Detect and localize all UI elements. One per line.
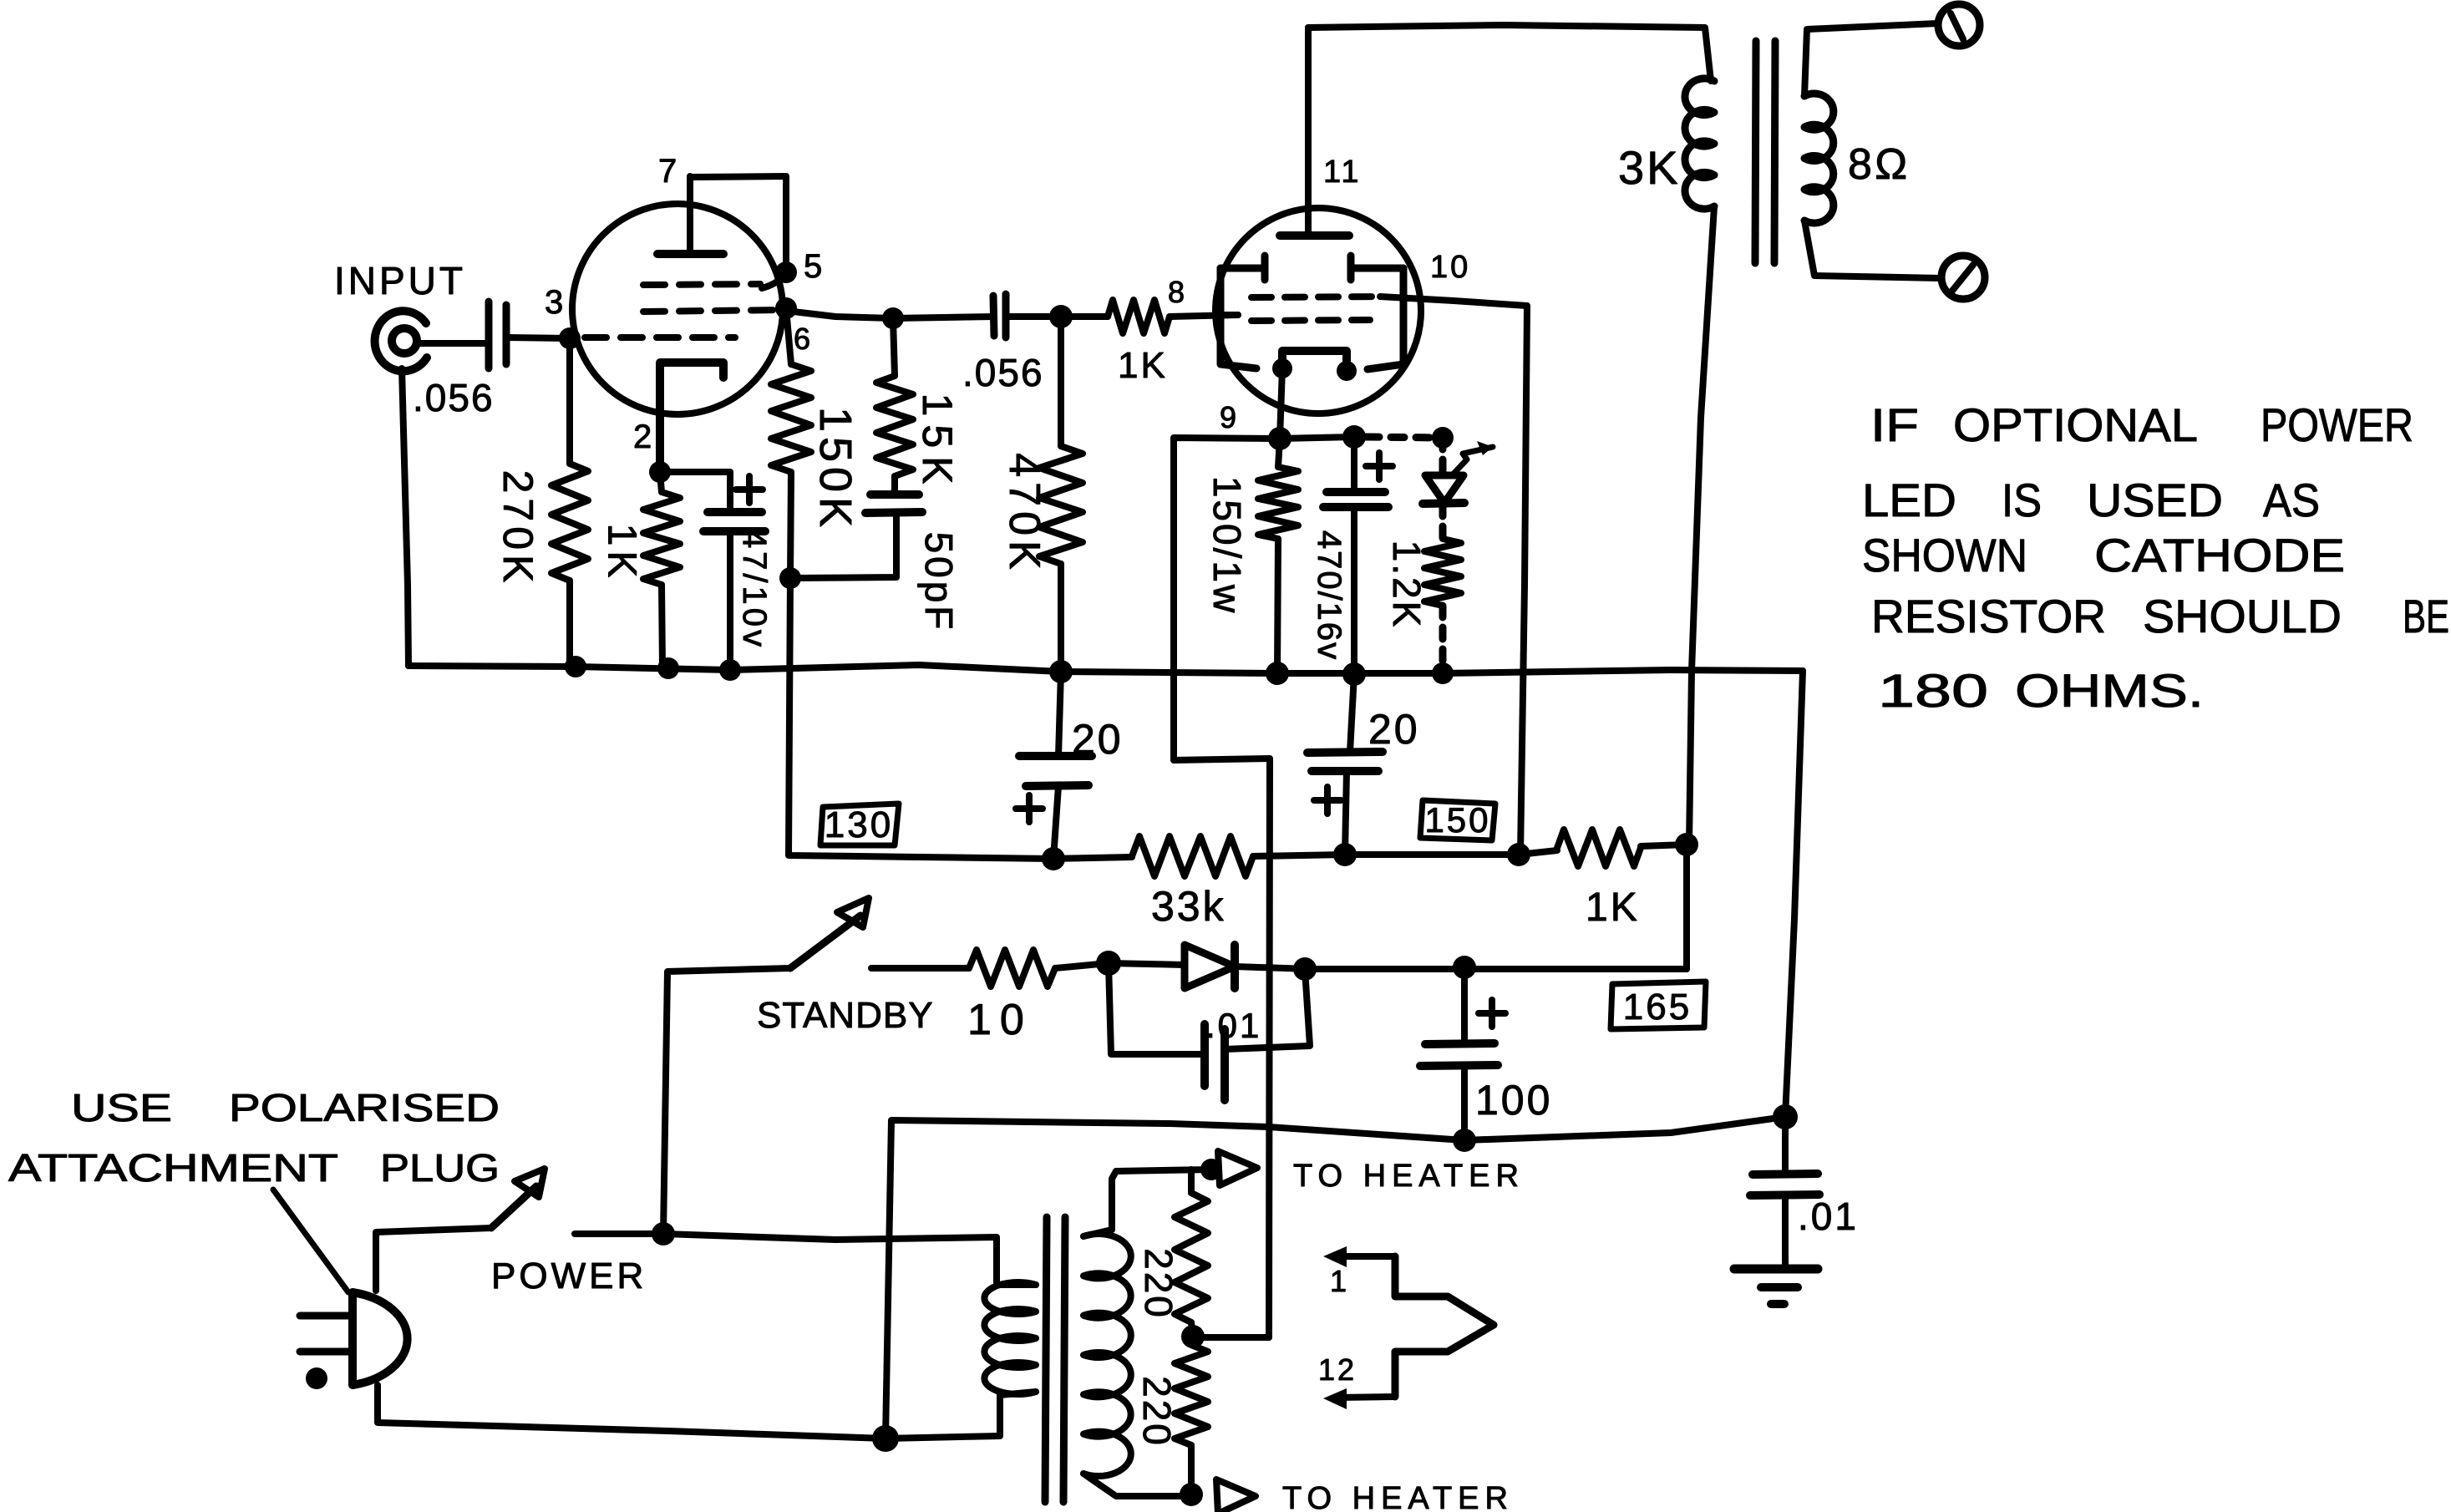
wire 130 node bbox=[789, 578, 1053, 859]
V2 cathode dots bbox=[1272, 358, 1357, 381]
svg-text:10: 10 bbox=[967, 996, 1033, 1044]
wire input jack to C1 bbox=[418, 340, 489, 347]
wire rail right down bbox=[1785, 671, 1803, 1117]
svg-text:SHOULD: SHOULD bbox=[2143, 590, 2342, 642]
capacitor C9 100 plus bbox=[1479, 1000, 1505, 1027]
svg-text:RESISTOR: RESISTOR bbox=[1871, 590, 2106, 642]
svg-text:POLARISED: POLARISED bbox=[229, 1086, 500, 1129]
capacitor C3 50pF bbox=[865, 495, 961, 632]
input jack J1 bbox=[375, 311, 427, 371]
resistor R6 1K grid stopper bbox=[1061, 300, 1238, 386]
node 470K top bbox=[1049, 305, 1073, 328]
capacitor C10 .01 bbox=[1750, 1117, 1819, 1269]
svg-text:USED: USED bbox=[2087, 474, 2223, 526]
node 20b bottom bbox=[1333, 843, 1357, 866]
standby switch arrowhead bbox=[837, 898, 869, 927]
node heater center tap bbox=[1181, 1325, 1205, 1348]
wire B+ top bbox=[1308, 25, 1711, 81]
resistor R1 270K bbox=[495, 338, 588, 667]
node pin5 bbox=[775, 248, 825, 285]
rail dot 470uF bbox=[1342, 662, 1366, 686]
capacitor C6 20 bbox=[1019, 672, 1092, 859]
standby switch lever bbox=[790, 916, 860, 968]
wire neutral to primary bottom bbox=[886, 1392, 1036, 1438]
svg-text:10: 10 bbox=[1430, 250, 1470, 285]
wire heater neutral line bbox=[886, 1117, 1785, 1438]
capacitor C7 20 plus bbox=[1314, 787, 1341, 814]
resistor R9 33K bbox=[1053, 836, 1345, 930]
pin label 3 bbox=[545, 284, 566, 321]
svg-text:SHOWN: SHOWN bbox=[1862, 529, 2027, 581]
capacitor C8 .01 bbox=[1205, 1006, 1261, 1100]
node pin6 bbox=[775, 297, 813, 356]
capacitor C1 .056 bbox=[413, 302, 506, 419]
label 20 first bbox=[1072, 716, 1124, 763]
pin12 arrow bbox=[1323, 1388, 1395, 1409]
node LED top bbox=[1432, 427, 1454, 449]
svg-text:3: 3 bbox=[545, 284, 566, 321]
label 165 box bbox=[1611, 982, 1706, 1029]
svg-text:33k: 33k bbox=[1151, 883, 1226, 930]
svg-text:STANDBY: STANDBY bbox=[757, 995, 934, 1036]
svg-text:11: 11 bbox=[1323, 155, 1361, 190]
wire secondary top bbox=[1804, 23, 1938, 96]
node power junction bbox=[652, 1222, 675, 1246]
wire dashed LED branch bbox=[1366, 437, 1443, 438]
resistor R10 1K bbox=[1519, 830, 1687, 930]
wire C4 to node bbox=[1006, 313, 1061, 320]
wire pin9 node left leg bbox=[1174, 438, 1280, 1337]
wire standby left bbox=[663, 968, 790, 1234]
tube V2 envelope bbox=[1215, 208, 1421, 414]
V1 plate pin7 lead bbox=[687, 176, 693, 254]
node pin2 bbox=[649, 461, 671, 483]
svg-text:270K: 270K bbox=[495, 470, 541, 588]
svg-text:180: 180 bbox=[1878, 664, 1988, 717]
svg-text:220: 220 bbox=[1135, 1376, 1179, 1448]
label use polarised bbox=[71, 1086, 500, 1129]
wire dashed R8 to rail bbox=[1439, 606, 1447, 673]
resistor R7 150/1w bbox=[1205, 439, 1298, 673]
capacitor C2 47/10v plus bbox=[736, 476, 763, 503]
label 130 box bbox=[820, 804, 899, 845]
wire power to transformer primary bbox=[663, 1234, 1036, 1285]
svg-text:ATTACHMENT: ATTACHMENT bbox=[8, 1146, 338, 1190]
svg-text:OHMS.: OHMS. bbox=[2015, 664, 2204, 717]
power transformer T2 core bbox=[1045, 1217, 1065, 1502]
pin label 7 bbox=[658, 153, 679, 190]
svg-text:.056: .056 bbox=[413, 376, 495, 419]
note line5 bbox=[1878, 664, 2204, 717]
svg-text:50pF: 50pF bbox=[917, 532, 961, 633]
rail dot 1K bbox=[657, 657, 679, 679]
resistor R5 470K bbox=[1000, 317, 1083, 672]
label pin 12 bbox=[1318, 1352, 1357, 1387]
capacitor C6 20 plus bbox=[1016, 795, 1043, 822]
wire pin9 node right bbox=[1280, 437, 1354, 439]
wire C1 to node 3 bbox=[506, 337, 570, 338]
label 20 second bbox=[1368, 706, 1420, 753]
svg-text:150/1w: 150/1w bbox=[1205, 476, 1249, 615]
node heater top arrow bbox=[1200, 1159, 1222, 1180]
wire secondary bottom bbox=[1083, 1474, 1191, 1496]
svg-text:1K: 1K bbox=[1118, 345, 1168, 386]
V2 grid dashes row2 bbox=[1251, 320, 1370, 321]
V2 beam plate left bbox=[1220, 256, 1265, 368]
label .01 bottom right bbox=[1798, 1195, 1859, 1238]
svg-text:BE: BE bbox=[2403, 590, 2449, 642]
wire plug top to power switch bbox=[376, 1228, 491, 1291]
svg-text:20: 20 bbox=[1368, 706, 1420, 753]
callout line bbox=[273, 1190, 348, 1292]
wire secondary bottom bbox=[1804, 221, 1941, 278]
label to heater top bbox=[1293, 1159, 1525, 1194]
V2 grid dashes row1 bbox=[1251, 297, 1380, 297]
rail dot 1.2K bbox=[1432, 662, 1454, 684]
wire primary bottom to 165 node bbox=[1689, 206, 1714, 845]
svg-text:6: 6 bbox=[794, 322, 813, 356]
node diode anode bbox=[1096, 951, 1121, 976]
capacitor C8 .01 left leg bbox=[1109, 963, 1205, 1054]
speaker terminal top bbox=[1938, 4, 1980, 46]
resistor R11 10 bbox=[967, 950, 1109, 1044]
wire to C4 bbox=[893, 317, 993, 318]
node 100 cap top bbox=[1453, 956, 1476, 979]
output transformer T1 secondary bbox=[1804, 94, 1834, 223]
tube V1 envelope bbox=[572, 204, 783, 414]
V1 plate bar bbox=[657, 250, 723, 258]
svg-text:TO HEATER: TO HEATER bbox=[1293, 1159, 1525, 1194]
svg-text:165: 165 bbox=[1623, 987, 1692, 1027]
svg-text:20: 20 bbox=[1072, 716, 1124, 763]
svg-text:1: 1 bbox=[1330, 1264, 1349, 1298]
note line2 bbox=[1862, 474, 2320, 526]
svg-text:9: 9 bbox=[1220, 400, 1239, 434]
svg-text:TO HEATER: TO HEATER bbox=[1282, 1481, 1514, 1512]
node heater right corner bbox=[1773, 1104, 1798, 1129]
wire standby fixed bbox=[871, 965, 969, 972]
wire pin10 vertical bbox=[1520, 306, 1527, 855]
label to heater bottom bbox=[1282, 1481, 1514, 1512]
label attachment plug bbox=[8, 1146, 500, 1190]
power switch arrowhead bbox=[515, 1169, 545, 1197]
svg-text:IS: IS bbox=[2002, 474, 2042, 526]
resistor R3 150K bbox=[771, 308, 860, 578]
capacitor C9 100 bbox=[1420, 967, 1552, 1140]
LED D2 bbox=[1423, 475, 1464, 504]
V2 cathode bracket bbox=[1282, 351, 1347, 371]
node 165 top bbox=[1675, 833, 1698, 856]
node pin10 150 line bbox=[1507, 843, 1530, 866]
svg-text:.056: .056 bbox=[962, 351, 1044, 394]
wire pin10 bbox=[1380, 297, 1527, 306]
pin label 10 bbox=[1430, 250, 1470, 285]
pin label 8 bbox=[1168, 275, 1187, 309]
rail dot 470K bbox=[1049, 660, 1073, 683]
svg-text:IF: IF bbox=[1870, 398, 1919, 451]
wire center tap to cathode line bbox=[1193, 1334, 1269, 1341]
svg-text:8Ω: 8Ω bbox=[1848, 140, 1911, 189]
svg-text:8: 8 bbox=[1168, 275, 1187, 309]
pin label 9 bbox=[1220, 400, 1239, 434]
ground symbol bbox=[1734, 1269, 1818, 1304]
rail dot 47uF bbox=[719, 659, 741, 681]
V2 plate lead pin11 bbox=[1305, 28, 1312, 236]
svg-text:220: 220 bbox=[1137, 1248, 1180, 1320]
label 3K bbox=[1618, 141, 1681, 194]
svg-text:150: 150 bbox=[1424, 800, 1490, 840]
wire 150 line bbox=[1345, 851, 1519, 858]
speaker terminal bottom bbox=[1941, 256, 1985, 299]
svg-text:150K: 150K bbox=[810, 407, 860, 532]
svg-text:.01: .01 bbox=[1798, 1195, 1859, 1238]
V2 beam plate right bbox=[1351, 256, 1403, 369]
wire to diode bbox=[1109, 963, 1185, 965]
note line3 bbox=[1862, 529, 2345, 581]
power switch lever bbox=[491, 1186, 536, 1228]
svg-text:INPUT: INPUT bbox=[334, 259, 466, 302]
label STANDBY bbox=[757, 995, 934, 1036]
node 15K top bbox=[882, 307, 904, 329]
diode D1 bbox=[1185, 945, 1235, 988]
svg-text:CATHODE: CATHODE bbox=[2094, 529, 2345, 581]
resistor R4 15K bbox=[876, 318, 961, 495]
resistor R8 1.2K bbox=[1385, 539, 1461, 629]
wire dashed LED to R8 bbox=[1439, 505, 1447, 539]
connector outline bbox=[1395, 1256, 1494, 1397]
capacitor C7 20 bbox=[1307, 674, 1383, 855]
LED arrow bbox=[1453, 441, 1493, 474]
svg-text:47/10v: 47/10v bbox=[736, 530, 773, 650]
wire 165 line bbox=[1305, 966, 1687, 972]
svg-text:130: 130 bbox=[825, 804, 893, 845]
svg-text:470/16v: 470/16v bbox=[1311, 530, 1347, 661]
svg-text:470K: 470K bbox=[1000, 453, 1048, 574]
svg-text:1K: 1K bbox=[1586, 885, 1640, 930]
capacitor C5 470/16v bbox=[1311, 437, 1388, 674]
label pin 1 bbox=[1330, 1264, 1349, 1298]
resistor R2 1K cathode bbox=[600, 472, 681, 667]
capacitor C2 47/10v bbox=[703, 512, 773, 671]
svg-text:2: 2 bbox=[633, 419, 654, 455]
V1 grid dashes row1 bbox=[643, 276, 784, 288]
svg-text:OPTIONAL: OPTIONAL bbox=[1953, 398, 2198, 451]
wire power fixed bbox=[575, 1230, 663, 1237]
wire 165 vertical bbox=[1683, 845, 1690, 969]
node 130 line bbox=[1042, 847, 1065, 870]
label 150 box bbox=[1420, 800, 1495, 840]
svg-text:POWER: POWER bbox=[491, 1256, 647, 1296]
pin1 arrow bbox=[1323, 1246, 1395, 1267]
wire plug bottom bbox=[378, 1385, 886, 1438]
rail dot 270K bbox=[565, 656, 586, 677]
wire pin6 to C4 bbox=[786, 311, 893, 318]
svg-text:3K: 3K bbox=[1618, 141, 1681, 194]
capacitor C4 .056 bbox=[962, 294, 1044, 394]
svg-text:5: 5 bbox=[804, 248, 825, 285]
node pin9 junction bbox=[1268, 427, 1291, 450]
capacitor C5 470/16v plus bbox=[1366, 453, 1393, 479]
resistor R13 220 lower bbox=[1135, 1345, 1208, 1494]
note line1 bbox=[1870, 398, 2413, 451]
pin label 11 bbox=[1323, 155, 1361, 190]
svg-text:1K: 1K bbox=[600, 524, 644, 583]
capacitor C8 right leg bbox=[1225, 969, 1310, 1049]
node heater 100cap bbox=[1453, 1129, 1476, 1152]
node 165 cap junction bbox=[1293, 957, 1317, 981]
input label bbox=[334, 259, 466, 302]
node 470uF top bbox=[1342, 425, 1366, 449]
output transformer T1 primary bbox=[1685, 79, 1714, 209]
heater arrow top bbox=[1218, 1151, 1257, 1185]
rail dot 150/1w bbox=[1266, 662, 1289, 685]
svg-text:USE: USE bbox=[71, 1086, 172, 1129]
pin label 2 bbox=[633, 419, 654, 455]
wire secondary top to heater bbox=[1083, 1170, 1211, 1236]
svg-text:AS: AS bbox=[2263, 474, 2320, 526]
node heater bottom bbox=[1180, 1483, 1203, 1506]
wire diode to 165 bbox=[1235, 967, 1309, 969]
wire jack sleeve to ground rail bbox=[402, 368, 408, 666]
note line4 bbox=[1871, 590, 2449, 642]
svg-text:POWER: POWER bbox=[2261, 398, 2413, 451]
svg-text:PLUG: PLUG bbox=[380, 1146, 500, 1190]
power transformer T2 primary bbox=[984, 1282, 1036, 1394]
label POWER bbox=[491, 1256, 647, 1296]
node neutral junction bbox=[872, 1425, 899, 1452]
svg-text:LED: LED bbox=[1862, 474, 1956, 526]
node pin3 junction bbox=[559, 327, 581, 349]
wire node to 50pF bbox=[790, 513, 896, 578]
wire pin2 to C2 bbox=[660, 472, 730, 511]
node 150K bottom bbox=[779, 567, 801, 589]
V2 plate bar bbox=[1280, 231, 1349, 240]
svg-text:7: 7 bbox=[658, 153, 679, 190]
V1 grid dashes row3 bbox=[585, 334, 735, 341]
svg-text:15K: 15K bbox=[914, 393, 961, 493]
svg-text:12: 12 bbox=[1318, 1352, 1357, 1387]
V1 cathode bbox=[660, 363, 723, 472]
label 8 ohm bbox=[1848, 140, 1911, 189]
heater arrow bottom bbox=[1216, 1479, 1256, 1512]
wire grid pin8 bbox=[1220, 312, 1238, 318]
resistor R12 220 upper bbox=[1137, 1170, 1208, 1337]
wire dashed LED top lead bbox=[1439, 438, 1447, 473]
power transformer T2 secondary bbox=[1083, 1234, 1131, 1476]
wire pin9 down bbox=[1280, 368, 1282, 439]
svg-text:1.2K: 1.2K bbox=[1385, 540, 1428, 630]
mains plug bbox=[300, 1292, 408, 1389]
wire V1 plate to pin5 bbox=[690, 176, 786, 272]
output transformer T1 core bbox=[1755, 41, 1775, 263]
V1 grid dashes row2 bbox=[643, 310, 784, 312]
svg-text:100: 100 bbox=[1475, 1077, 1552, 1124]
svg-text:.01: .01 bbox=[1205, 1006, 1261, 1045]
ground rail bbox=[408, 665, 1803, 673]
